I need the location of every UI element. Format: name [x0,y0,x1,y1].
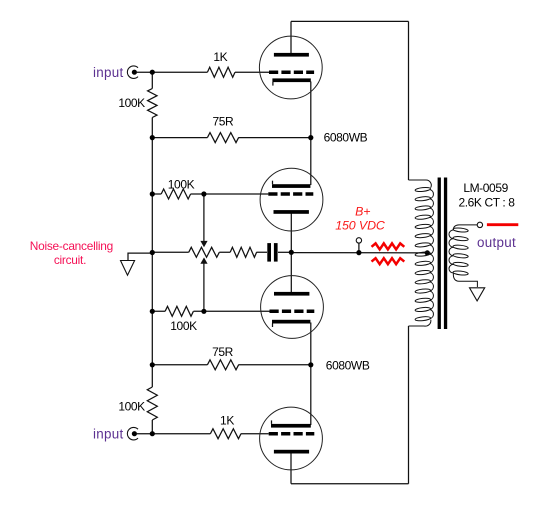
red ripple squiggle bottom [372,258,405,264]
svg-text:input: input [93,65,124,80]
node T2 cathode T3 plate [289,250,294,255]
wire 100K bottom row [152,310,204,312]
red ripple squiggle top [372,243,405,249]
svg-text:6080WB: 6080WB [326,359,370,373]
capacitor C1 [267,243,277,262]
red output level line [487,223,518,226]
wire pot wiper top [203,194,205,242]
svg-text:100K: 100K [170,319,197,333]
svg-text:Noise-cancelling: Noise-cancelling [30,239,113,253]
svg-text:75R: 75R [212,115,234,129]
node 100K top left [150,191,155,196]
resistor R5 series mid [230,247,256,257]
node T3 cathode 75R 6080WB bottom [308,362,313,367]
potentiometer wiper arrow bottom [200,257,207,263]
svg-text:100K: 100K [118,400,145,414]
potentiometer wiper arrow top [200,241,207,247]
input jack bottom [127,427,138,439]
svg-text:100K: 100K [118,96,145,110]
node 100K bottom left [150,309,155,314]
svg-text:100K: 100K [168,178,195,192]
node pot bottom [201,309,206,314]
resistor R7 75R bottom [207,360,238,370]
svg-text:150 VDC: 150 VDC [335,219,386,233]
tube U2 6080WB section B [260,168,323,231]
wire node to transformer center tap [291,252,427,254]
node input bottom junction [150,431,155,436]
wire pot wiper bottom [203,264,205,312]
wire right rail upper [408,21,410,180]
wire input top row [137,71,269,73]
svg-text:LM-0059: LM-0059 [463,181,508,195]
node transformer center tap [425,250,430,255]
wire T1 cathode lead to T2 plate [310,82,312,186]
svg-text:circuit.: circuit. [54,253,86,267]
ground right under secondary [470,288,485,301]
B+ terminal circle [356,238,361,243]
wire T2 grid lead [204,193,268,195]
node mid left rail [150,250,155,255]
transformer T1 primary winding [409,180,434,326]
node T1 cathode 75R 6080WB top [308,135,313,140]
resistor R8 100K vertical bottom [147,387,157,420]
potentiometer P1 [189,247,220,257]
svg-text:B+: B+ [355,205,370,219]
output terminal circle [477,222,482,227]
wire cap to node [278,251,291,253]
tube U3 6080WB section A lower [261,276,324,339]
svg-text:1K: 1K [220,414,234,428]
node 75R top left [150,135,155,140]
wire T1 plate lead [290,21,292,54]
transformer core [438,178,448,330]
resistor R2 100K vertical top [148,89,157,118]
svg-text:6080WB: 6080WB [324,131,368,145]
node pot top [201,191,206,196]
wire T3 plate lead [290,252,292,293]
svg-text:75R: 75R [212,345,234,359]
node input top junction [150,70,155,75]
resistor R6 100K horizontal bottom [165,306,193,316]
wire B+ terminal stub [358,243,360,253]
wire mid row pot to cap [152,251,267,253]
svg-text:2.6K CT : 8: 2.6K CT : 8 [458,195,515,209]
transformer secondary winding [449,225,477,287]
wire top plate rail [291,20,409,22]
resistor R4 100K horizontal top [161,189,190,199]
tube U4 6080WB section B lower [260,407,323,470]
node 75R bottom left [150,362,155,367]
wire 75R bottom row [152,364,310,366]
resistor R9 1K bottom [210,429,241,439]
wire bottom cathode rail [291,483,409,485]
wire T2 cathode lead [290,213,292,252]
resistor R3 75R top [207,133,238,143]
wire left ground stub [128,253,152,260]
svg-text:1K: 1K [213,50,227,64]
wire T4 cathode lead [290,453,292,484]
svg-text:input: input [93,427,124,442]
node B+ [356,250,361,255]
wire 75R top row [152,137,310,139]
resistor R1 1K top [207,67,235,77]
wire right rail lower [408,326,410,484]
wire left rail [151,72,153,434]
wire T3 grid lead [204,310,270,312]
ground left [121,261,135,276]
wire T3 cathode lead to T4 plate [310,323,312,426]
tube U1 6080WB section A [259,36,322,99]
input jack top [127,66,138,78]
wire 100K top row [152,193,204,195]
wire input bottom row [137,433,269,435]
svg-text:output: output [477,235,516,250]
